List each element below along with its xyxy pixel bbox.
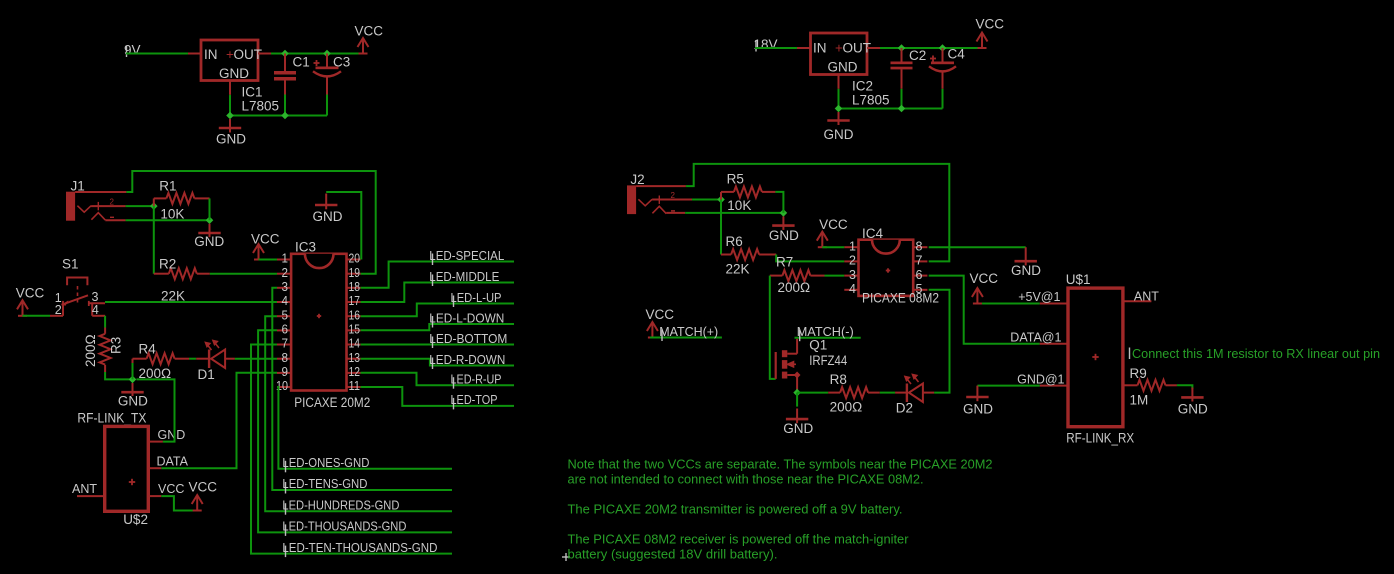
wire MATCH- net (795, 337, 861, 339)
labels IC4 left pin numbers (849, 239, 856, 296)
svg-text:L7805: L7805 (852, 93, 890, 108)
wire ground rail top-left (230, 115, 327, 117)
wire junction down to R2 (153, 206, 155, 274)
svg-text:15: 15 (349, 323, 361, 337)
resistor R2 (154, 273, 169, 275)
wire IC2 GND down (838, 89, 840, 109)
svg-text:R5: R5 (727, 172, 744, 187)
wire IC3 pin9 to RF-LINK_TX DATA (161, 373, 277, 468)
supply VCC symbol at IC4 pin1 (817, 232, 828, 248)
wire IC3 pin5 to LED-HUNDREDS-GND (265, 316, 452, 511)
node LED-THOUSANDS-GND net label (285, 524, 287, 536)
pin J2 sleeve stub (666, 212, 685, 214)
svg-text:1: 1 (282, 252, 289, 266)
svg-text:IC3: IC3 (295, 240, 316, 255)
svg-text:17: 17 (349, 294, 361, 308)
resistor R7 (770, 275, 783, 277)
wire ground rail top-right (839, 108, 943, 110)
svg-text:C2: C2 (909, 48, 926, 63)
svg-text:IC2: IC2 (852, 79, 873, 94)
svg-text:U$1: U$1 (1066, 272, 1091, 287)
svg-text:5: 5 (282, 308, 289, 322)
svg-text:4: 4 (849, 282, 856, 296)
svg-text:19: 19 (349, 266, 361, 280)
svg-text:LED-MIDDLE: LED-MIDDLE (429, 269, 499, 284)
pin U$1 linear out stub (1123, 384, 1138, 386)
node LED-TENS-GND net label (285, 482, 287, 494)
note connect 1M resistor (1129, 348, 1131, 360)
junction J1 sleeve ground (206, 216, 214, 224)
supply VCC symbol at U$2 (192, 495, 203, 511)
svg-text:GND: GND (158, 428, 186, 442)
svg-text:RF-LINK_TX: RF-LINK_TX (77, 411, 146, 426)
svg-text:VCC: VCC (189, 480, 218, 495)
wire S1 pin4 down to R3 (104, 316, 106, 328)
svg-text:IC1: IC1 (242, 85, 263, 100)
pin U$1 DATA stub (1040, 343, 1068, 345)
svg-text:4: 4 (92, 303, 99, 317)
svg-text:VCC: VCC (355, 24, 384, 39)
svg-text:Connect this 1M resistor to RX: Connect this 1M resistor to RX linear ou… (1132, 347, 1380, 361)
pin J2 tip stub (652, 199, 692, 201)
svg-text:LED-ONES-GND: LED-ONES-GND (282, 456, 369, 470)
svg-text:R6: R6 (726, 234, 743, 249)
junction ground rail at C1 (281, 112, 289, 120)
svg-text:D1: D1 (198, 367, 215, 382)
pin U$2 ANT stub (77, 495, 105, 497)
svg-text:200Ω: 200Ω (830, 400, 863, 415)
svg-text:MATCH(+): MATCH(+) (659, 324, 718, 339)
svg-text:LED-TEN-THOUSANDS-GND: LED-TEN-THOUSANDS-GND (282, 541, 437, 555)
pin IC1 IN stub (188, 53, 201, 55)
svg-text:14: 14 (349, 337, 361, 351)
pin IC2 GND stub (838, 75, 840, 89)
svg-text:GND: GND (1011, 263, 1041, 278)
svg-text:OUT: OUT (843, 41, 872, 56)
svg-text:16: 16 (349, 308, 361, 322)
svg-text:PICAXE 20M2: PICAXE 20M2 (294, 395, 370, 410)
svg-text:GND: GND (313, 209, 343, 224)
wire R7 left down to Q1 gate (770, 276, 776, 379)
resistor R4 (132, 363, 134, 379)
svg-text:R1: R1 (159, 179, 176, 194)
svg-text:IN: IN (204, 47, 218, 62)
LED D2 (895, 392, 907, 394)
node 9V input net label (126, 46, 128, 58)
svg-text:18: 18 (349, 280, 361, 294)
svg-text:8: 8 (282, 351, 289, 365)
junction at C3 top (323, 50, 331, 58)
svg-text:VCC: VCC (976, 17, 1005, 32)
wire ground to IC3 pin20 (326, 192, 361, 260)
supply VCC symbol at S1 (17, 300, 28, 316)
node LED-ONES-GND net label (285, 461, 287, 473)
node LED-HUNDREDS-GND net label (285, 503, 287, 515)
ground symbol below R1 (209, 224, 211, 238)
wire IC3 pin18 to LED-SPECIAL (361, 262, 514, 288)
svg-text:LED-TENS-GND: LED-TENS-GND (282, 477, 367, 491)
wire C2 bottom to ground rail (901, 89, 903, 109)
pin U$1 ANT stub (1123, 300, 1152, 302)
voltage regulator IC2 L7805 body (811, 33, 868, 75)
svg-text:R3: R3 (109, 337, 124, 354)
svg-text:D2: D2 (896, 401, 913, 416)
pin U$2 VCC stub (148, 495, 161, 497)
wire IC3 pin16 to LED-L-UP (361, 304, 514, 317)
node LED-MIDDLE net label (432, 275, 434, 287)
wire J2 tip to junction (692, 199, 721, 201)
svg-text:S1: S1 (62, 257, 79, 272)
svg-text:VCC: VCC (819, 217, 848, 232)
svg-text:200Ω: 200Ω (778, 280, 811, 295)
wire 18V to IC2 IN (755, 47, 797, 49)
svg-text:R7: R7 (776, 255, 793, 270)
ground symbol at R9 (1191, 388, 1193, 402)
wire IC3 pin17 to LED-MIDDLE (361, 283, 514, 303)
svg-text:GND: GND (219, 66, 249, 81)
node LED-R-DOWN net label (432, 358, 434, 370)
wire IC3 pin13 to LED-R-DOWN (361, 359, 514, 366)
svg-text:R4: R4 (139, 342, 157, 357)
capacitor C1 (284, 54, 286, 72)
svg-text:VCC: VCC (646, 307, 675, 322)
wire R9 to ground (1177, 385, 1193, 389)
pin U$1 +5V stub (1040, 303, 1068, 305)
wire IC3 pin10 to LED-ONES-GND (277, 387, 452, 469)
wire U$2 GND up to ground net (137, 379, 175, 441)
svg-text:are not intended to connect wi: are not intended to connect with those n… (568, 473, 924, 487)
svg-text:IC4: IC4 (862, 226, 884, 241)
svg-text:LED-TOP: LED-TOP (451, 392, 498, 407)
node LED-TEN-THOUSANDS-GND net label (285, 546, 287, 558)
svg-text:LED-L-DOWN: LED-L-DOWN (429, 310, 504, 325)
svg-text:LED-R-UP: LED-R-UP (451, 372, 502, 387)
svg-text:GND: GND (216, 132, 246, 147)
svg-text:GND: GND (824, 127, 854, 142)
pin IC2 OUT stub (867, 47, 880, 49)
svg-text:IN: IN (813, 41, 827, 56)
wire VCC to S1 pin2 (23, 315, 51, 317)
IC IC3 PICAXE 20M2 body (291, 254, 346, 391)
node LED-L-DOWN net label (432, 316, 434, 328)
ground symbol below IC1 (229, 119, 231, 133)
resistor R3 vertical (104, 328, 106, 334)
ground symbol at IC4 pin8 (1025, 247, 1027, 265)
wire IC3 pin6 to LED-THOUSANDS-GND (258, 330, 452, 532)
ground symbol below R5 (782, 216, 784, 230)
svg-text:Q1: Q1 (809, 338, 827, 353)
wire C3 bottom to ground rail (326, 95, 328, 116)
svg-text:DATA: DATA (157, 455, 189, 469)
LED D1 (189, 358, 196, 360)
svg-text:LED-R-DOWN: LED-R-DOWN (429, 352, 505, 367)
pin IC1 OUT stub (258, 53, 271, 55)
svg-text:C1: C1 (293, 55, 310, 70)
svg-text:7: 7 (916, 254, 923, 268)
svg-text:Note that the two VCCs are sep: Note that the two VCCs are separate. The… (568, 458, 993, 472)
junction J1 tip R1 R2 (150, 202, 158, 210)
ground symbol above IC3 (325, 194, 327, 210)
pin J1 sleeve stub (105, 219, 125, 221)
svg-text:PICAXE 08M2: PICAXE 08M2 (862, 291, 939, 306)
wire S1 pin3 to IC3 pin4 (105, 301, 277, 303)
node LED-L-UP net label (453, 296, 455, 308)
junction R3 R4 ground (129, 376, 137, 384)
wire IC3 pin15 to LED-L-DOWN (361, 324, 514, 330)
svg-text:20: 20 (349, 252, 361, 266)
wire IC3 pin14 to LED-BOTTOM (361, 344, 514, 346)
wire R1 right to ground junction (209, 198, 211, 220)
pin J1 switch stub (75, 191, 126, 193)
wire R6 right to IC4 pin2 (776, 255, 844, 262)
labels IC3 left pin numbers (276, 252, 288, 394)
svg-text:VCC: VCC (251, 232, 280, 247)
svg-text:LED-L-UP: LED-L-UP (451, 290, 502, 305)
resistor R1 (153, 198, 155, 206)
wire U$2 VCC to VCC arrow (161, 496, 197, 510)
junction ground rail at IC2 (835, 105, 843, 113)
svg-text:3: 3 (849, 268, 856, 282)
svg-text:VCC: VCC (16, 285, 45, 300)
svg-text:C3: C3 (333, 55, 350, 70)
svg-text:J2: J2 (630, 172, 644, 187)
wire MATCH+ net (650, 337, 722, 339)
svg-text:6: 6 (916, 268, 923, 282)
junction J2 tip R5 R6 (717, 196, 725, 204)
wire J1 sleeve to ground junction (126, 219, 210, 221)
ground symbol below Q1 (796, 393, 798, 407)
transistor Q1 IRFZ44 MOSFET (775, 352, 777, 379)
svg-text:The PICAXE 08M2 receiver is po: The PICAXE 08M2 receiver is powered off … (568, 533, 909, 547)
svg-text:5: 5 (916, 282, 923, 296)
svg-text:3: 3 (282, 280, 289, 294)
svg-text:ANT: ANT (72, 482, 97, 496)
svg-text:GND: GND (1178, 402, 1208, 417)
wire R3 bottom to junction (105, 372, 132, 379)
wire VCC to U$1 +5V (977, 303, 1039, 305)
svg-text:GND@1: GND@1 (1017, 373, 1064, 387)
svg-text:The PICAXE 20M2 transmitter is: The PICAXE 20M2 transmitter is powered o… (568, 503, 903, 517)
resistor R8 (828, 392, 840, 394)
pin IC1 GND stub (229, 81, 231, 95)
junction at C4 top (939, 44, 947, 52)
wire J1 tip to junction (126, 205, 154, 207)
svg-text:IRFZ44: IRFZ44 (809, 353, 847, 368)
junction at C2 top (898, 44, 906, 52)
node MATCH(+) net label (661, 330, 663, 342)
junction Q1 source ground (793, 389, 801, 397)
wire IC3 pin12 to LED-R-UP (361, 373, 514, 385)
wire junction down to R6 (720, 200, 722, 255)
svg-text:8: 8 (916, 239, 923, 253)
node 18V input net label (755, 40, 757, 52)
junction at C1 top (281, 50, 289, 58)
svg-text:LED-BOTTOM: LED-BOTTOM (429, 331, 507, 346)
wire IC4 pin5 to LED D2 (929, 290, 950, 393)
wire D1 to IC3 pin8 (235, 358, 277, 360)
svg-text:OUT: OUT (234, 47, 263, 62)
wire J2 sleeve to ground junction (685, 212, 783, 214)
svg-text:2: 2 (55, 303, 62, 317)
junction J2 sleeve ground (780, 209, 788, 217)
pins IC4 right stubs (913, 247, 927, 290)
pin U$2 DATA stub (148, 467, 161, 469)
svg-text:L7805: L7805 (242, 99, 280, 114)
supply VCC symbol at U$1 (972, 288, 983, 304)
resistor R6 (721, 254, 731, 256)
svg-text:ANT: ANT (1134, 290, 1159, 304)
wire IC1 GND down (229, 95, 231, 116)
wire C4 bottom to ground rail (942, 89, 944, 109)
svg-text:VCC: VCC (970, 271, 999, 286)
svg-text:RF-LINK_RX: RF-LINK_RX (1066, 431, 1134, 446)
svg-text:U$2: U$2 (123, 512, 148, 527)
junction ground rail at IC1 (226, 112, 234, 120)
svg-text:9V: 9V (124, 43, 141, 58)
svg-text:C4: C4 (948, 47, 966, 62)
wire VCC to IC3 pin1 (259, 259, 278, 261)
svg-text:11: 11 (349, 379, 361, 393)
voltage regulator IC1 L7805 body (201, 40, 258, 81)
svg-text:12: 12 (349, 365, 361, 379)
svg-text:1: 1 (849, 239, 856, 253)
svg-text:GND: GND (194, 234, 224, 249)
labels IC3 right pin numbers (349, 252, 361, 394)
svg-text:DATA@1: DATA@1 (1010, 331, 1061, 345)
svg-text:10K: 10K (160, 207, 184, 222)
svg-text:13: 13 (349, 351, 361, 365)
svg-text:6: 6 (282, 323, 289, 337)
wire Q1 source to R8 (797, 392, 828, 394)
wire R5 right to ground junction (775, 192, 783, 213)
pin U$1 GND stub (1040, 385, 1068, 387)
wire IC3 pin7 to LED-TEN-THOUSANDS-GND (251, 345, 452, 554)
wire IC4 pin8 to ground (929, 246, 1026, 248)
wire VCC rail from IC1 OUT (271, 53, 363, 55)
resistor R5 (720, 192, 722, 200)
wire IC3 pin3 to LED-TENS-GND (272, 288, 452, 490)
capacitor C2 (901, 48, 903, 62)
svg-text:LED-SPECIAL: LED-SPECIAL (429, 248, 504, 263)
supply VCC symbol MATCH+ (647, 322, 658, 338)
capacitor C3 polarized (326, 54, 328, 67)
IC IC4 PICAXE 08M2 body (859, 240, 914, 296)
wire C1 bottom to ground rail (284, 95, 286, 116)
wire R7 right to IC4 pin3 (825, 275, 845, 277)
svg-text:GND: GND (769, 228, 799, 243)
svg-text:1M: 1M (1130, 393, 1149, 408)
node LED-BOTTOM net label (432, 337, 434, 349)
supply VCC symbol at IC3 pin1 (253, 244, 264, 260)
pin IC2 IN stub (797, 47, 811, 49)
pin J2 switch stub (636, 185, 686, 187)
node LED-TOP net label (453, 398, 455, 410)
node LED-SPECIAL net label (432, 254, 434, 266)
svg-text:R8: R8 (830, 372, 847, 387)
junction ground rail at C2 (898, 105, 906, 113)
wire IC3 pin11 to LED-TOP (361, 387, 514, 406)
svg-text:200Ω: 200Ω (83, 334, 98, 367)
svg-text:10K: 10K (727, 198, 751, 213)
wire VCC rail from IC2 OUT (880, 47, 982, 49)
svg-text:VCC: VCC (158, 482, 184, 496)
svg-text:R9: R9 (1130, 366, 1147, 381)
supply VCC symbol top-left (358, 38, 369, 54)
svg-text:2: 2 (849, 254, 856, 268)
pin U$2 GND stub (148, 441, 163, 443)
wire J1 switch to IC3 pin19 loop (126, 171, 375, 274)
ground symbol below IC2 (838, 112, 840, 125)
svg-text:GND: GND (783, 421, 813, 436)
wire R8 to D2 cathode (880, 392, 895, 394)
ground symbol at U$1 (976, 386, 978, 402)
svg-text:R2: R2 (159, 257, 176, 272)
wire 9V to IC1 IN (126, 53, 188, 55)
pins IC4 left stubs (844, 247, 858, 290)
svg-text:GND: GND (963, 402, 993, 417)
ground symbol below R3 junction (132, 383, 134, 396)
labels IC4 right pin numbers (916, 239, 923, 296)
node MATCH(-) net label (799, 330, 801, 342)
svg-text:22K: 22K (726, 262, 750, 277)
node LED-R-UP net label (453, 377, 455, 389)
svg-text:2: 2 (282, 266, 289, 280)
wire J2 switch to IC4 pin7 loop (686, 164, 949, 262)
svg-text:GND: GND (828, 60, 858, 75)
svg-text:18V: 18V (754, 37, 778, 52)
svg-text:4: 4 (282, 294, 289, 308)
svg-text:LED-HUNDREDS-GND: LED-HUNDREDS-GND (282, 498, 399, 512)
svg-text:GND: GND (118, 394, 148, 409)
wire U$1 GND to ground (977, 385, 1039, 387)
supply VCC symbol top-right (977, 33, 988, 49)
pins IC3 left stubs (277, 260, 291, 388)
wire IC4 pin6 to U$1 DATA (929, 276, 1040, 344)
wire VCC to IC4 pin1 (822, 246, 844, 248)
svg-text:battery (suggested 18V drill b: battery (suggested 18V drill battery). (568, 548, 778, 562)
pin J1 tip stub (91, 205, 126, 207)
svg-text:9: 9 (282, 365, 289, 379)
wire R2 to IC3 pin2 (210, 273, 277, 275)
svg-text:+5V@1: +5V@1 (1018, 290, 1060, 304)
resistor R9 (1138, 380, 1166, 391)
capacitor C4 polarized (942, 48, 944, 62)
svg-text:7: 7 (282, 337, 289, 351)
svg-text:LED-THOUSANDS-GND: LED-THOUSANDS-GND (282, 520, 406, 534)
pins IC3 right stubs (347, 260, 361, 388)
